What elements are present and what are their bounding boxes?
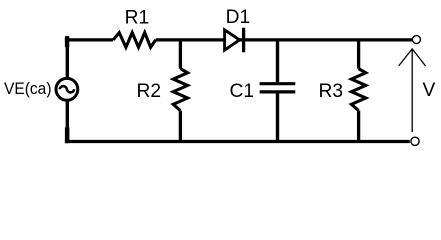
resistor R1 <box>113 33 155 48</box>
label R1 <box>125 7 150 28</box>
label D1 <box>226 7 251 28</box>
wire diode cathode to top-right terminal <box>240 38 413 41</box>
svg-text:R1: R1 <box>125 7 150 28</box>
terminal bottom-right open circle <box>411 137 419 145</box>
wire R2 top lead <box>179 40 182 69</box>
source VE(ca) circle <box>56 78 78 100</box>
capacitor C1 top plate <box>260 82 296 85</box>
svg-text:VE(ca): VE(ca) <box>4 79 52 98</box>
svg-text:D1: D1 <box>226 7 251 28</box>
label R3 <box>319 81 344 102</box>
label V <box>423 80 436 101</box>
svg-text:R2: R2 <box>137 81 162 102</box>
wire R2 bottom lead <box>179 111 182 142</box>
wire C1 bottom lead <box>276 94 279 142</box>
wire left vertical (source to bottom wire) <box>66 100 69 141</box>
wire left vertical (top wire to source) <box>66 36 69 78</box>
resistor R3 <box>351 69 365 111</box>
arrow V shaft <box>411 49 413 132</box>
wire top-left horizontal (source to R1) <box>65 38 113 41</box>
wire R3 bottom lead <box>357 111 360 142</box>
label C1 <box>230 81 255 102</box>
resistor R2 <box>173 69 187 111</box>
wire R1 to diode anode <box>156 38 225 41</box>
svg-text:R3: R3 <box>319 81 344 102</box>
svg-text:C1: C1 <box>230 81 255 102</box>
svg-text:V: V <box>423 80 436 101</box>
arrow V head <box>399 49 426 66</box>
capacitor C1 bottom plate <box>260 90 296 93</box>
label R2 <box>137 81 162 102</box>
corner stub top-left <box>65 36 69 47</box>
diode D1 cathode bar <box>242 28 245 53</box>
diode D1 triangle <box>225 30 240 50</box>
terminal top-right open circle <box>412 36 420 44</box>
label VE(ca) <box>4 79 52 98</box>
wire R3 top lead <box>357 40 360 69</box>
wire C1 top lead <box>276 40 279 82</box>
source sine symbol <box>60 86 75 92</box>
wire bottom horizontal <box>65 140 410 143</box>
corner stub bottom-left <box>65 127 70 143</box>
